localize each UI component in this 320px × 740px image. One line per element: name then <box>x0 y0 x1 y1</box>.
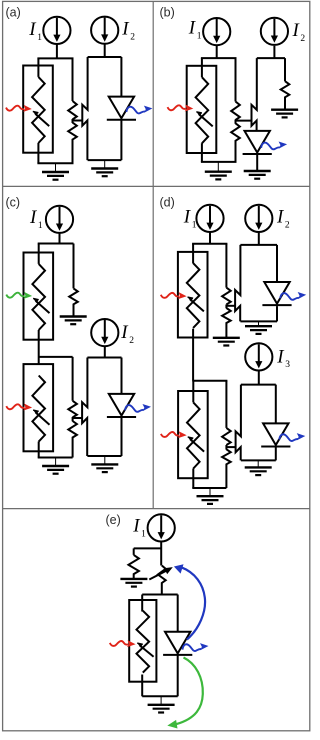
green input light arrow (c) <box>6 290 32 299</box>
wire photoresistor top lead (b) <box>201 58 203 77</box>
ground under bias resistor (e) <box>120 579 147 587</box>
svg-text:(c): (c) <box>6 196 21 210</box>
blue emitted light arrow (b) <box>261 141 288 150</box>
wire photoresistor2 bottom lead (c) <box>38 442 40 458</box>
resistor R1 bias (e) <box>129 548 139 579</box>
wire divider middle joint (d) <box>225 305 227 309</box>
ground under R2 (c) <box>60 317 87 325</box>
wire upper right rail (d) <box>240 244 277 246</box>
wire LED2 top lead (d) <box>275 385 277 424</box>
wire lower bottom rail (d) <box>192 487 226 489</box>
wire potentiometer tap (a) <box>73 120 83 122</box>
LED D1 (d) <box>262 282 291 305</box>
blue emitted light arrow (e) <box>182 643 209 652</box>
LED D1 (b) <box>243 131 272 154</box>
wire potentiometer tap (c) <box>73 417 83 419</box>
wire LED bottom lead (c) <box>121 417 123 456</box>
resistor R5 upper divider (d) <box>222 381 231 445</box>
wire LED top lead (e) <box>177 595 179 632</box>
svg-text:(b): (b) <box>160 6 175 20</box>
LED D2 (d) <box>261 423 290 446</box>
wire wiper arrows node A (a) <box>82 57 87 160</box>
photoresistor R3 (e) <box>129 600 156 682</box>
ground right (a) <box>91 160 118 176</box>
wire LED1 bottom lead (d) <box>276 306 278 321</box>
wire LED1 top lead (d) <box>276 245 278 282</box>
resistor R3 upper divider (c) <box>68 357 77 417</box>
wire right top rail (b) <box>257 57 285 59</box>
wire upper left rail (d) <box>192 243 227 245</box>
wire left top rail (a) <box>37 57 73 59</box>
current source I1 (b) <box>203 18 230 45</box>
wire bottom rail (e) <box>142 695 178 697</box>
red input light arrow (d) upper <box>161 291 187 300</box>
wire wiper arrows node A (c) <box>82 358 87 457</box>
wire photoresistor1 top lead (c) <box>38 244 40 264</box>
photoresistor R1 (a) <box>23 66 53 153</box>
wire lower right rail (d) <box>241 384 276 386</box>
photoresistor R1 (d) <box>178 252 208 338</box>
LED D1 (a) <box>107 97 136 120</box>
ground right (c) <box>91 456 118 472</box>
wire I2 stem (d) <box>258 233 260 245</box>
wire left top rail (b) <box>201 57 237 59</box>
resistor R3 lower divider (a) <box>68 123 77 164</box>
ground left (b) <box>205 162 232 180</box>
wire bottom rail (b) <box>201 161 237 163</box>
photoresistor R4 (d) <box>178 391 208 478</box>
red input light arrow (e) <box>110 639 136 648</box>
wire divider middle joint lower (d) <box>225 445 227 450</box>
wire I2 rail (c) <box>87 357 121 359</box>
red input light arrow (a) <box>6 103 32 112</box>
current source I2 (b) <box>261 18 288 45</box>
wire LED top lead (c) <box>121 358 123 394</box>
blue emitted light arrow (d) lower <box>279 433 306 442</box>
rheostat R2 zigzag (e) <box>158 566 166 595</box>
wire I2 stem (b) <box>273 46 275 58</box>
wire top rail (e) <box>142 594 178 596</box>
current source I2 (c) <box>91 319 118 346</box>
wire left bottom rail (a) <box>37 162 73 164</box>
ground (e) <box>148 696 175 712</box>
wire I2 stem (a) <box>104 44 106 57</box>
panel divider vertical (a|b, c|d) <box>152 1 154 508</box>
resistor R3 lower divider (b) <box>231 123 240 162</box>
wire I3 stem (d) <box>258 371 260 385</box>
wire I2 stem (c) <box>104 347 106 358</box>
ground under LED (b) <box>244 171 271 179</box>
current source I2 (d) <box>245 205 272 232</box>
blue emitted light arrow (a) <box>126 105 153 114</box>
current source I3 (d) <box>245 343 272 370</box>
resistor R2 (c) <box>69 244 78 317</box>
wire photoresistor1 bottom lead (d) <box>192 329 194 381</box>
wire LED2 bottom lead (d) <box>275 447 277 461</box>
wire I1 stem (e) <box>160 542 162 566</box>
ground under R4 (b) <box>271 110 298 118</box>
wire photoresistor bottom lead (b) <box>201 143 203 162</box>
current source I2 (a) <box>91 17 118 44</box>
wire right bottom rail (a) <box>88 159 122 161</box>
wire lower loop bottom rail (d) <box>241 459 276 461</box>
resistor R2 upper divider (d) <box>222 244 231 305</box>
panel divider horizontal (cd|e) <box>3 508 310 510</box>
blue emitted light arrow (c) <box>125 403 152 412</box>
wire photoresistor bottom lead (a) <box>37 143 39 163</box>
current source I1 (d) <box>196 205 223 232</box>
photoresistor R5 (c) <box>24 364 54 451</box>
photoresistor R1 (c) <box>24 253 54 340</box>
wire middle rail (c) <box>39 356 73 358</box>
svg-text:(d): (d) <box>160 196 175 210</box>
current source I1 (a) <box>43 17 70 44</box>
wire wiper arrows node A (d) upper <box>235 245 240 322</box>
red input light arrow (d) lower <box>161 430 187 439</box>
wire photoresistor2 top lead (d) <box>192 381 194 403</box>
wire wiper arrows node A (b) <box>252 58 257 131</box>
wire I1 to left rail (a) <box>56 44 58 58</box>
wire potentiometer tap (d) <box>226 305 235 307</box>
wire photoresistor bottom lead (e) <box>141 675 143 697</box>
wire I1 stem (c) <box>59 233 61 244</box>
wire LED top lead (a) <box>120 57 122 97</box>
green feedback arrow LED to ground (e) <box>167 658 203 729</box>
ground left (c) <box>42 458 69 474</box>
panel divider horizontal (ab|cd) <box>3 185 310 187</box>
wire photoresistor2 bottom lead (d) <box>192 469 194 489</box>
wire photoresistor1 top lead (d) <box>192 244 194 263</box>
wire potentiometer tap (b) <box>236 120 252 122</box>
wire branch to bias resistor (e) <box>134 547 162 549</box>
wire top rail (c) <box>38 243 74 245</box>
wire wiper arrows node B (d) lower <box>236 385 241 461</box>
rheostat arrow (e) <box>149 567 173 579</box>
svg-text:(a): (a) <box>6 6 21 20</box>
wire LED bottom lead (a) <box>120 120 122 160</box>
blue feedback arrow LED to rheostat (e) <box>174 564 205 639</box>
ground under divider (d) upper <box>213 338 240 346</box>
wire upper loop bottom rail (d) <box>240 320 277 322</box>
svg-text:(e): (e) <box>106 513 121 527</box>
wire I1 stem (d) <box>209 233 211 244</box>
resistor R3 lower divider (d) <box>222 308 231 338</box>
wire I1 stem (b) <box>216 46 218 59</box>
ground under LED2 loop (d) <box>245 460 272 475</box>
resistor R4 lower divider (c) <box>68 421 77 458</box>
current source I1 (e) <box>148 514 175 541</box>
wire left bottom rail (c) <box>38 457 73 459</box>
wire right bottom rail (c) <box>87 455 121 457</box>
wire divider middle joint (c) <box>72 417 74 421</box>
wire potentiometer tap lower (d) <box>226 446 235 448</box>
ground left (a) <box>42 163 69 179</box>
wire photoresistor top lead (a) <box>37 58 39 77</box>
resistor R6 lower divider (d) <box>222 449 231 488</box>
wire photoresistor top lead (e) <box>141 595 143 612</box>
wire photoresistor1 bottom lead (c) <box>38 330 40 364</box>
LED D1 (c) <box>107 394 136 417</box>
wire lower left rail (d) <box>192 380 227 382</box>
wire divider middle joint (a) <box>72 119 74 123</box>
wire LED bottom lead (e) <box>177 655 179 696</box>
ground bottom (d) <box>197 488 224 504</box>
red input light arrow (c) <box>6 402 32 411</box>
ground under LED1 loop (d) <box>245 321 272 334</box>
resistor R2 upper divider (a) <box>68 58 77 119</box>
blue emitted light arrow (d) upper <box>280 291 307 300</box>
wire divider middle joint (b) <box>235 120 237 124</box>
resistor R4 (b) <box>281 58 290 110</box>
resistor R2 upper divider (b) <box>231 58 240 120</box>
red input light arrow (b) <box>167 103 193 112</box>
photoresistor R1 (b) <box>187 66 217 153</box>
wire LED cathode stem (b) <box>256 154 258 171</box>
current source I1 (c) <box>46 206 73 233</box>
wire right top rail (a) <box>88 56 122 58</box>
LED D1 (e) <box>163 632 192 655</box>
